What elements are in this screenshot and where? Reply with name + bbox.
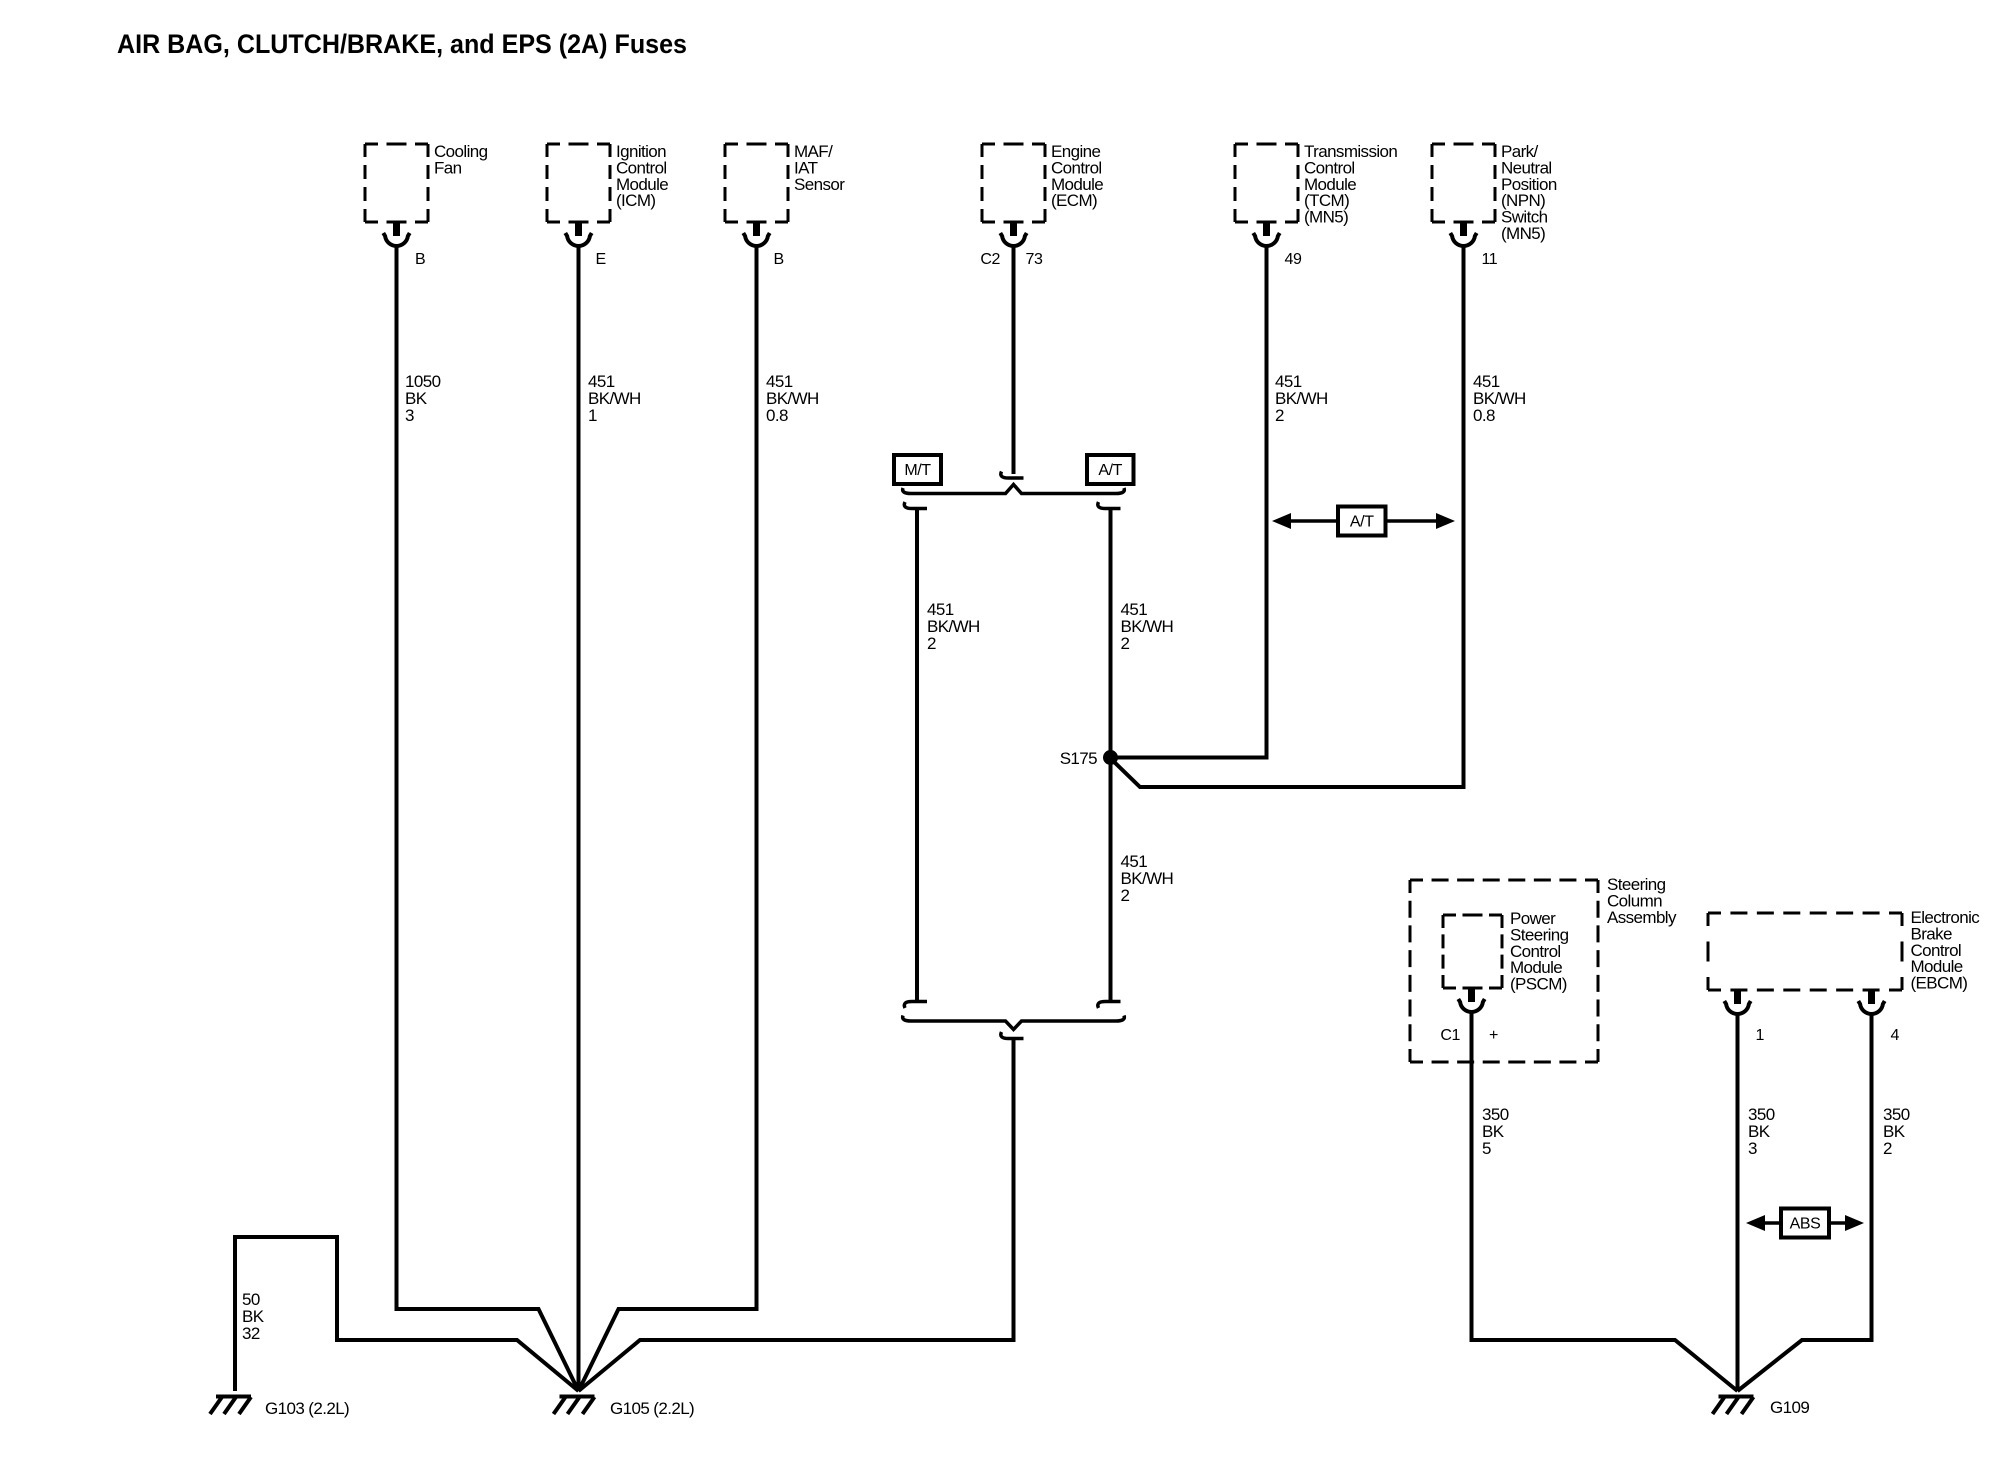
svg-text:A/T: A/T [1098,462,1122,479]
branch end hook (M/T branch) [904,1002,927,1009]
svg-text:B: B [415,251,425,268]
svg-text:G103 (2.2L): G103 (2.2L) [265,1399,349,1418]
branch end hook (A/T branch) [1098,1002,1121,1009]
connector terminal under engine control module ECM [1000,222,1026,246]
wire: M/T branch [915,509,919,1002]
wire: cooling fan to G105 [397,247,579,1391]
svg-text:S175: S175 [1060,749,1097,768]
ground G109 [1713,1397,1754,1415]
wire: MAF/IAT to G105 [579,247,757,1391]
connector terminal under park/neutral position switch NPN [1450,222,1476,246]
connector terminal under MAF/IAT sensor [743,222,769,246]
svg-text:AIR BAG, CLUTCH/BRAKE, and EPS: AIR BAG, CLUTCH/BRAKE, and EPS (2A) Fuse… [117,29,687,59]
svg-text:73: 73 [1026,251,1043,268]
wire: PSCM to G109 [1472,1013,1738,1391]
svg-text:G109: G109 [1770,1398,1809,1417]
ABS applicability arrow between EBCM wires [1746,1209,1864,1238]
M/T option box [894,455,941,484]
svg-text:EngineControlModule(ECM): EngineControlModule(ECM) [1051,142,1103,210]
svg-text:M/T: M/T [904,462,931,479]
wire: merged output to G105 [579,1039,1014,1392]
connector terminal under cooling fan [383,222,409,246]
svg-text:B: B [774,251,784,268]
wire: TCM pin 49 to S175 [1114,247,1267,758]
component box: engine control module ECM [982,142,1103,222]
merge brace below branches [903,1016,1125,1030]
connector terminal under ignition control module ICM [565,222,591,246]
out wire hook below merge [1001,1032,1024,1039]
connector terminal under transmission control module TCM [1253,222,1279,246]
component box: park/neutral position switch NPN [1432,142,1557,243]
connector terminal EBCM pin 1 [1724,990,1750,1014]
electronic brake control module EBCM box [1708,908,1980,993]
component box: MAF/IAT sensor [725,142,845,222]
svg-text:C1: C1 [1440,1027,1460,1044]
ground G103 [210,1397,251,1415]
wire: NPN pin 11 to S175 [1108,247,1464,787]
ground G105 [554,1397,595,1415]
connector terminal EBCM pin 4 [1858,990,1884,1014]
svg-text:ABS: ABS [1790,1216,1821,1233]
connector terminal under PSCM [1458,988,1484,1012]
svg-text:A/T: A/T [1350,514,1374,531]
svg-text:49: 49 [1285,251,1302,268]
svg-text:E: E [596,251,606,268]
component box: cooling fan [365,142,488,222]
branch start hook (M/T branch) [904,502,927,509]
wire: A/T branch through S175 [1109,509,1113,1002]
wire: ICM to G105 [577,247,581,1391]
wire: EBCM pin 4 to G109 [1738,1015,1872,1391]
steering column assembly outer box [1410,875,1677,1062]
svg-text:G105 (2.2L): G105 (2.2L) [610,1399,694,1418]
component box: ignition control module ICM [547,142,668,222]
svg-text:+: + [1489,1027,1498,1044]
wire: G103 jumper to G105 [235,1237,579,1391]
svg-text:11: 11 [1482,251,1498,268]
component box: transmission control module TCM [1235,142,1397,227]
wire: ECM pin 73 down to M/T-A/T split [1012,247,1016,474]
wire end hook (ECM wire) [1001,472,1024,479]
A/T option box [1087,455,1134,484]
A/T applicability arrow between TCM and NPN wires [1272,507,1455,536]
svg-text:4: 4 [1891,1027,1900,1044]
power steering control module PSCM box [1443,909,1569,994]
split brace (M/T | A/T options) [903,485,1125,494]
branch start hook (A/T branch) [1098,502,1121,509]
svg-text:C2: C2 [980,251,1000,268]
svg-text:1: 1 [1756,1027,1765,1044]
splice node S175 [1103,750,1118,765]
wire: EBCM pin 1 to G109 [1736,1015,1740,1391]
